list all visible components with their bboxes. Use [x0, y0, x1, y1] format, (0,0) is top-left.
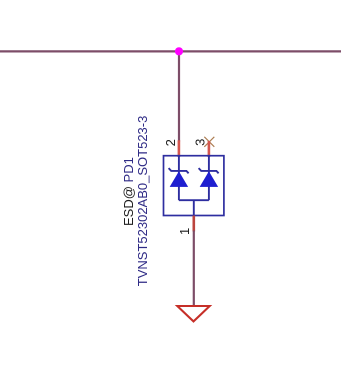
svg-text:3: 3	[193, 139, 208, 146]
pin 1 stub	[193, 216, 196, 232]
svg-text:TVNST52302AB0_SOT523-3: TVNST52302AB0_SOT523-3	[135, 116, 150, 287]
diode D-right triangle	[200, 172, 217, 187]
diode D-right internal wire	[208, 156, 210, 200]
svg-text:2: 2	[163, 139, 178, 146]
internal center stem	[193, 200, 195, 215]
diode D-left internal wire	[178, 156, 180, 200]
internal connector bar	[179, 199, 209, 201]
ground symbol	[177, 306, 209, 321]
pin 2 stub	[178, 140, 181, 157]
svg-text:ESD@ PD1: ESD@ PD1	[121, 157, 136, 226]
diode D-left triangle	[170, 172, 187, 187]
wire vertical from net to pin 2	[178, 51, 180, 141]
pin 3 stub	[208, 141, 211, 157]
part body box U PD1	[164, 156, 224, 216]
wire horizontal net	[0, 50, 341, 52]
diode D-left cathode bar	[169, 168, 189, 173]
no-connect X on pin 3	[204, 137, 214, 147]
diode D-right cathode bar	[199, 168, 219, 173]
svg-text:1: 1	[177, 228, 192, 235]
junction dot	[175, 47, 183, 55]
wire from pin 1 to ground	[193, 231, 195, 307]
